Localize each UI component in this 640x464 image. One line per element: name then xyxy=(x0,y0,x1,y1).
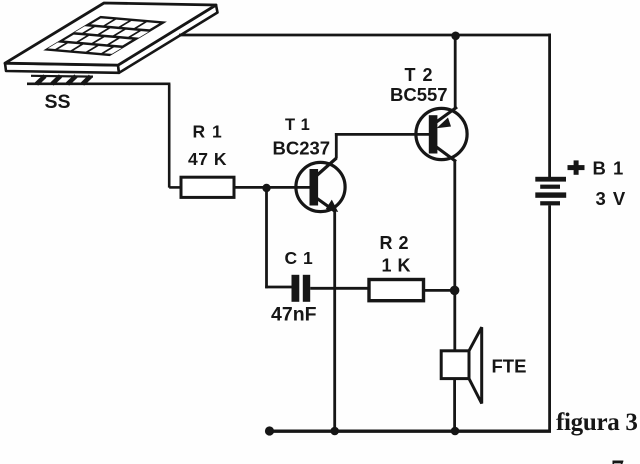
top rail xyxy=(179,34,551,37)
battery B1 xyxy=(535,177,566,206)
bottom rail xyxy=(268,430,551,433)
battery plus sign xyxy=(568,160,585,174)
svg-text:FTE: FTE xyxy=(492,356,527,377)
node base junction xyxy=(262,184,270,192)
node top rail junction xyxy=(451,32,460,41)
speaker FTE box xyxy=(441,351,469,379)
svg-text:T 2: T 2 xyxy=(405,65,434,85)
svg-text:BC557: BC557 xyxy=(390,84,448,105)
wire C1 to R2 xyxy=(310,287,369,290)
svg-text:T 1: T 1 xyxy=(285,116,310,134)
svg-text:R 1: R 1 xyxy=(193,122,223,142)
wire battery down to bottom rail xyxy=(548,205,551,432)
resistor R2 xyxy=(369,280,424,301)
wire R2 to collector junction xyxy=(424,289,457,292)
wire down to R1 xyxy=(168,84,171,188)
wire T2 collector down to speaker xyxy=(453,161,456,352)
svg-text:47nF: 47nF xyxy=(271,304,317,326)
wire T2 emitter up to rail xyxy=(454,34,457,108)
sensor SS plate top face xyxy=(5,3,216,65)
speaker FTE cone xyxy=(469,327,482,403)
node bottom left terminal xyxy=(265,426,274,435)
svg-text:SS: SS xyxy=(45,91,71,113)
wire base junction down to C1 xyxy=(265,189,268,288)
svg-text:R 2: R 2 xyxy=(380,233,410,253)
wire T1 emitter down to rail xyxy=(333,212,336,431)
svg-text:BC237: BC237 xyxy=(273,138,331,159)
svg-text:C 1: C 1 xyxy=(285,248,314,268)
svg-text:1 K: 1 K xyxy=(382,256,412,276)
wire right rail down to battery xyxy=(548,34,551,178)
sensor contact strip top line xyxy=(31,75,93,78)
node speaker to rail xyxy=(451,427,460,436)
svg-text:7: 7 xyxy=(611,455,624,464)
wire T1 collector up xyxy=(335,133,338,159)
wire R1 to T1 base xyxy=(234,186,310,189)
capacitor C1 xyxy=(292,275,311,302)
transistor T1 xyxy=(296,158,345,212)
sensor SS plate bottom faces xyxy=(5,5,218,73)
svg-text:B 1: B 1 xyxy=(593,158,625,179)
wire speaker to bottom rail xyxy=(453,379,456,430)
wire to C1 left plate xyxy=(265,286,291,289)
svg-text:figura 3: figura 3 xyxy=(556,409,638,436)
wire sensor bottom line xyxy=(27,83,170,86)
resistor R1 xyxy=(181,177,234,197)
node T1 emitter to rail xyxy=(330,427,339,436)
svg-text:3 V: 3 V xyxy=(596,188,627,209)
wire into R1 xyxy=(169,186,181,189)
sensor contact hatch marks xyxy=(37,76,91,84)
node collector junction xyxy=(450,286,460,296)
sensor SS touch grid xyxy=(39,16,170,57)
wire to T2 base xyxy=(335,133,430,136)
transistor T2 xyxy=(416,107,467,162)
svg-text:47 K: 47 K xyxy=(188,149,227,169)
